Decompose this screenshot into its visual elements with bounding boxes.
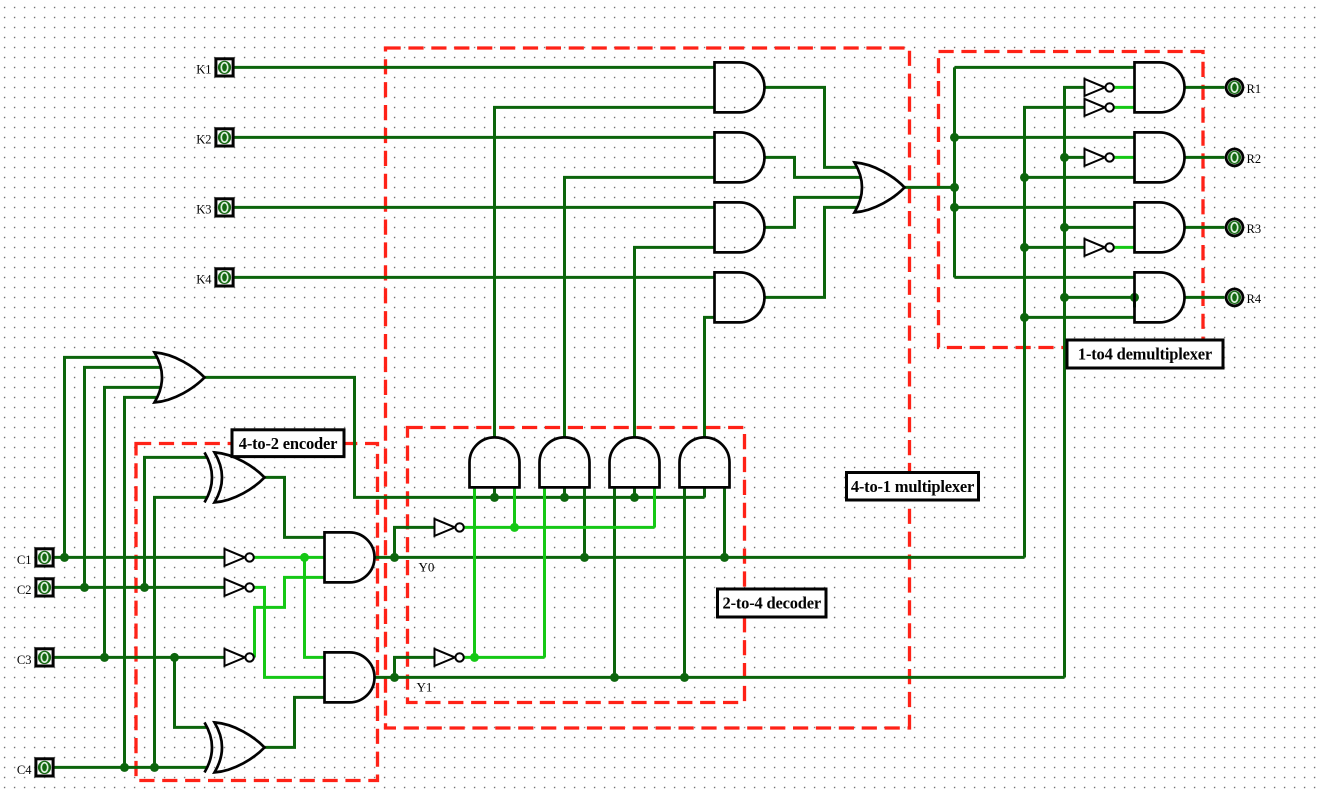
or-gate U1 (any-key OR) [155,352,205,402]
wire Y1 to NOT input [395,657,435,677]
wire demux data vertical [953,67,956,277]
junction node (560,490) [560,493,569,502]
wire stub at R4 gate input [1133,297,1136,307]
junction node (950,130) [950,133,959,142]
svg-text:2-to-4 decoder: 2-to-4 decoder [723,594,821,613]
and-gate U18 (mux K4) [715,272,765,322]
junction node (1130,290) [1130,293,1139,302]
svg-text:K3: K3 [196,202,211,216]
wire Y1 to R2 NOT input [1065,156,1085,159]
and-gate U25 (demux R2) [1135,132,1185,182]
wire NOT-C2 to Y1 gate [255,587,325,677]
junction node (490,490) [490,493,499,502]
wire NOT-Y0 output [465,526,655,529]
wire R2 gate output [1185,156,1225,159]
wire demux NOT3 output [1115,156,1135,159]
junction node (950,180) [950,183,959,192]
wire NOT-Y0 to decoder gate3 stub [653,487,656,527]
not-gate U6 (C3 inverter) [225,649,245,666]
svg-text:K1: K1 [196,62,211,76]
output pin R3 [1226,219,1243,236]
wire decoder gate3 Y1 stub [613,487,616,677]
svg-text:Y1: Y1 [417,679,433,694]
and-gate U12 (decoder out1) [540,437,590,487]
junction node (1060,150) [1060,153,1069,162]
junction node (390,550) [390,553,399,562]
svg-text:C1: C1 [17,553,32,567]
svg-text:K4: K4 [196,272,212,286]
wire decoder out2 to mux gate2 [565,177,715,437]
wire XOR1 output to Y0 gate [265,477,325,537]
junction node (390,670) [390,673,399,682]
svg-text:R4: R4 [1247,292,1262,306]
wire XOR2 output to Y1 gate [265,697,325,747]
not-gate U20 (demux R1 sel0) [1085,79,1105,96]
wire NOT-Y0 to decoder gate1 stub [513,487,516,527]
not-gate U10 (Y1 inverter) [435,649,455,666]
caption box 2-to-4 decoder [718,589,827,617]
not-gate U9 (Y0 inverter) [435,519,455,536]
and-gate U24 (demux R1) [1135,62,1185,112]
wire decoder gate4 Y0 stub [723,487,726,557]
wire decoder out1 to mux gate1 [495,107,715,437]
wire mux gate4 output to OR input [765,207,858,297]
and-gate U15 (mux K1) [715,62,765,112]
junction node (300,550) high [300,553,309,562]
junction node (720,550) [720,553,729,562]
wire decoder out3 to mux gate3 [635,247,715,437]
input pin K4 [216,269,233,286]
caption box 4-to-1 multiplexer [847,473,979,501]
decoder dashed outline box [408,428,745,703]
wire decoder gate2 Y0 stub [583,487,586,557]
wire NOT-C3 to Y0 gate [255,577,325,657]
wire demux NOT4 output [1115,246,1135,249]
wire NOT-Y1 to decoder gate1 stub [473,487,476,657]
and-gate U27 (demux R4) [1135,272,1185,322]
wire mux gate1 output to OR input [765,87,858,167]
not-gate U5 (C2 inverter) [225,579,245,596]
svg-text:R2: R2 [1247,152,1262,166]
demultiplexer dashed outline box [939,52,1204,348]
and-gate U11 (decoder out0) [470,437,520,487]
wire C4 row [55,766,208,769]
wire NOT-C1 to Y1 gate [305,557,325,657]
junction node (610,670) [610,673,619,682]
wire OR output to demux [905,186,955,189]
wire Y0 to R4 gate input [1025,316,1135,319]
and-gate U16 (mux K2) [715,132,765,182]
encoder dashed outline box [136,444,378,781]
wire Y1 to R4 gate input [1065,296,1135,299]
wire C2 to XOR1 input [145,457,208,587]
junction node (100,650) [100,653,109,662]
junction node (120,760) [120,763,129,772]
wire Y1 to R3 gate input [1065,226,1135,229]
wire Y0 to R2 gate input [1025,176,1135,179]
wire demux data to R1 gate [955,66,1135,69]
wire Y0 to R3 NOT input [1025,246,1085,249]
wire K4 row [235,276,715,279]
junction node (1060,290) [1060,293,1069,302]
wire C1 to OR1 input [65,357,158,557]
xor-gate U3 [215,722,265,772]
svg-text:4-to-2 encoder: 4-to-2 encoder [239,434,337,453]
junction node (150,760) [150,763,159,772]
and-gate U8 (Y1) [325,652,375,702]
and-gate U14 (decoder out3) [680,437,730,487]
wire C4 to OR1 input [125,397,158,767]
wire demux data to R4 gate [955,276,1135,279]
not-gate U21 (demux R1 sel1) [1085,99,1105,116]
and-gate U26 (demux R3) [1135,202,1185,252]
wire R1 gate output [1185,86,1225,89]
junction node (580,550) [580,553,589,562]
wire NOT-Y1 output [465,656,545,659]
wire mux gate2 output to OR input [765,157,862,177]
junction node (680,670) [680,673,689,682]
input pin K3 [216,199,233,216]
not-gate U4 (C1 inverter) [225,549,245,566]
xor-gate U2 [215,452,265,502]
caption box 4-to-2 encoder [232,430,344,457]
not-gate U23 (demux R3) [1085,239,1105,256]
svg-text:4-to-1 multiplexer: 4-to-1 multiplexer [851,477,974,496]
junction node (60,550) [60,553,69,562]
wire Y0 net [375,556,1025,559]
wire decoder gate2 enable stub [563,487,566,497]
or-gate U19 (mux OR) [855,162,905,212]
svg-text:K2: K2 [196,132,211,146]
junction node (140,580) [140,583,149,592]
junction node (1020,170) [1020,173,1029,182]
wire C4 to XOR1 input [155,497,208,767]
wire demux NOT2 output [1115,106,1135,109]
wire demux select Y0 vertical [1025,107,1085,557]
wire R3 gate output [1185,226,1225,229]
output pin R4 [1226,289,1243,306]
wire demux data to R2 gate [955,136,1135,139]
caption box 1-to4 demultiplexer [1067,340,1223,368]
wire C3 to XOR2 input [175,657,208,727]
junction node (510,520) high [510,523,519,532]
output pin R2 [1226,149,1243,166]
wire C1 row [55,556,225,559]
svg-text:R1: R1 [1247,82,1262,96]
junction node (630,490) [630,493,639,502]
multiplexer dashed outline box [386,48,910,728]
wire Y1 net [375,676,1065,679]
junction node (170,650) [170,653,179,662]
junction node (1020,240) [1020,243,1029,252]
wire C2 row [55,586,225,589]
svg-text:R3: R3 [1247,222,1262,236]
wire C2 to OR1 input [85,367,161,587]
wire K1 row [235,66,715,69]
wire C3 to OR1 input [105,387,161,657]
input pin C3 [36,649,53,666]
wire mux gate3 output to OR input [765,197,862,227]
svg-text:C3: C3 [17,653,32,667]
and-gate U13 (decoder out2) [610,437,660,487]
junction node (950,200) [950,203,959,212]
junction node (1060,220) [1060,223,1069,232]
wire C3 row [55,656,225,659]
wire Y0 to NOT input [395,527,435,557]
junction node (80,580) [80,583,89,592]
and-gate U17 (mux K3) [715,202,765,252]
svg-text:Y0: Y0 [419,559,435,574]
wire decoder gate4 Y1 stub [683,487,686,677]
output pin R1 [1226,79,1243,96]
and-gate U7 (Y0) [325,532,375,582]
svg-text:1-to4 demultiplexer: 1-to4 demultiplexer [1078,345,1212,364]
input pin C1 [36,549,53,566]
wire R4 gate output [1185,296,1225,299]
wire K2 row [235,136,715,139]
wire demux NOT1 output [1115,86,1135,89]
input pin C4 [36,759,53,776]
wire demux data to R3 gate [955,206,1135,209]
junction node (470,650) high [470,653,479,662]
wire NOT-Y1 to decoder gate2 stub [543,487,546,657]
wire K3 row [235,206,715,209]
input pin C2 [36,579,53,596]
input pin K2 [216,129,233,146]
svg-text:C4: C4 [17,763,32,777]
wire OR1 output enable line [205,377,705,497]
svg-text:C2: C2 [17,583,32,597]
wire decoder gate4 enable stub [703,487,706,497]
wire NOT-C1 output [255,556,325,559]
junction node (1020,310) [1020,313,1029,322]
wire decoder gate1 enable stub [493,487,496,497]
wire decoder gate3 enable stub [633,487,636,497]
wire demux select Y1 vertical [1065,87,1085,677]
input pin K1 [216,59,233,76]
not-gate U22 (demux R2) [1085,149,1105,166]
wire decoder out4 to mux gate4 [705,317,715,437]
